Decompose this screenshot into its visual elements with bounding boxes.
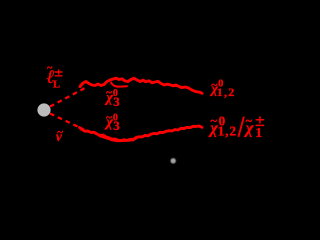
label: slepton pm superscript	[55, 69, 63, 75]
wire: overlap stroke on lower wavy	[100, 136, 136, 141]
wire: overlap stroke on upper wavy	[111, 83, 127, 87]
label: slash between chi labels	[238, 117, 244, 137]
svg-text:1: 1	[255, 126, 262, 141]
label: pm superscript of chi 1	[256, 116, 265, 125]
label: upper right chi 1,2	[210, 77, 236, 99]
node: interaction vertex blob	[37, 103, 50, 116]
label: slepton l~+-_L	[46, 63, 60, 90]
label: upper chi3	[104, 87, 120, 109]
node: small gray dot	[171, 158, 176, 163]
svg-text:1,2: 1,2	[218, 123, 237, 138]
svg-text:~: ~	[211, 114, 218, 128]
wire: lower dashed sneutrino propagator	[50, 114, 84, 130]
svg-text:~: ~	[47, 63, 53, 74]
svg-text:~: ~	[106, 87, 112, 99]
wire: upper wavy chi3 line	[80, 78, 202, 93]
svg-text:1,2: 1,2	[217, 85, 236, 99]
wire: lower wavy chi3 line	[80, 126, 203, 141]
wire: upper dashed slepton propagator	[50, 88, 85, 107]
svg-text:L: L	[53, 79, 60, 90]
svg-text:3: 3	[113, 94, 120, 109]
label: lower right chi 1,2 / chi 1	[208, 114, 262, 142]
svg-text:~: ~	[57, 126, 63, 138]
label: sneutrino nu~	[56, 126, 63, 144]
svg-text:3: 3	[113, 118, 120, 133]
svg-text:~: ~	[106, 112, 112, 124]
label: lower chi3	[104, 112, 120, 133]
svg-text:~: ~	[246, 114, 253, 128]
